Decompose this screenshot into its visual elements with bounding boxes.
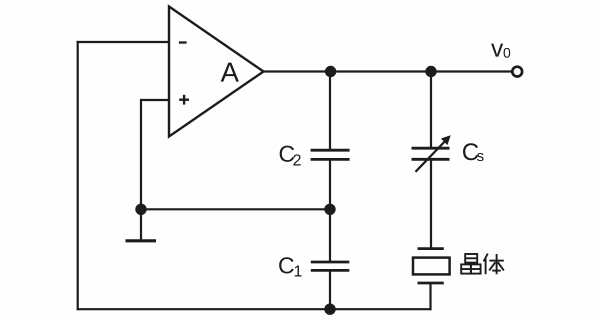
op-amp non-inverting input marker (+) <box>179 95 189 105</box>
junction node: middle / C2-C1 <box>324 204 335 215</box>
variable capacitor Cs arrow <box>416 141 446 172</box>
label v0 <box>491 44 503 57</box>
wire: ground stub <box>140 209 142 240</box>
晶 bottom-left box <box>461 264 471 273</box>
label C2 <box>280 146 295 162</box>
wire: non-inverting input horizontal <box>141 99 169 101</box>
wire: C1 bottom lead <box>329 271 331 309</box>
wire: non-inverting vertical down to middle node <box>140 99 142 209</box>
output terminal v0 open circle <box>512 67 522 77</box>
ground bar <box>126 239 157 242</box>
crystal Y1 top electrode <box>418 247 444 250</box>
体 bottom bar <box>492 270 501 272</box>
label Cs <box>463 143 478 160</box>
晶 bottom-right box <box>471 264 481 273</box>
wire: op-amp output to terminal <box>264 70 513 72</box>
junction node: output / Cs <box>425 66 436 77</box>
wire: middle node horizontal <box>141 208 330 210</box>
variable capacitor Cs plates <box>412 147 450 150</box>
junction node: bottom / C1 <box>324 304 335 315</box>
junction node: output / C2 <box>325 66 336 77</box>
体 vertical of 木 <box>496 254 498 274</box>
label A (op-amp gain) <box>221 63 239 82</box>
crystal Y1 bottom electrode <box>418 282 444 285</box>
label 晶体 (crystal) drawn as strokes <box>461 254 504 275</box>
wire: C2 top lead <box>329 72 331 150</box>
op-amp U1 triangle <box>169 7 264 137</box>
wire: C2 bottom lead <box>329 160 331 209</box>
wire: crystal bottom lead <box>429 283 431 310</box>
capacitor C2 plates <box>311 149 350 152</box>
wire: bottom horizontal <box>77 308 431 310</box>
label C1 <box>279 257 294 273</box>
wire: inverting input from feedback <box>77 41 169 43</box>
wire: Cs top lead <box>430 72 432 148</box>
crystal Y1 body <box>413 258 450 275</box>
op-amp inverting input marker (-) <box>179 41 187 43</box>
wire: Cs bottom lead to crystal <box>430 160 432 249</box>
wire: C1 top lead <box>329 209 331 262</box>
capacitor C1 plates <box>311 261 350 264</box>
junction node: middle / non-inverting <box>135 204 146 215</box>
wire: left feedback vertical <box>77 41 79 310</box>
晶 top box <box>465 254 477 263</box>
体 right diagonal <box>498 262 504 270</box>
体 horizontal of 木 <box>489 260 503 262</box>
体 left diagonal <box>489 262 495 270</box>
体 person radical <box>484 254 488 262</box>
